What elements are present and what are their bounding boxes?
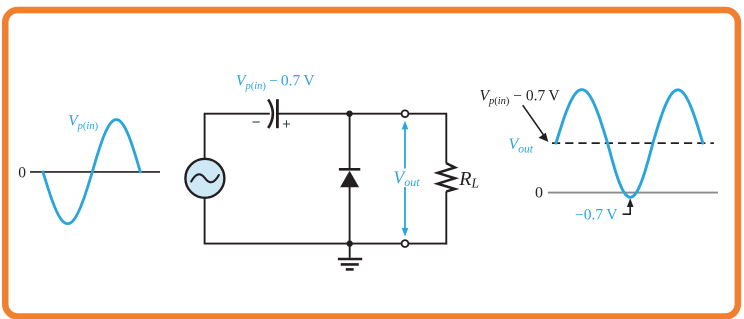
junction bottom <box>347 240 353 246</box>
terminal bottom <box>402 240 409 247</box>
ac source VS <box>185 159 224 198</box>
terminal top <box>402 110 409 117</box>
wire top right <box>277 113 446 115</box>
wire top left <box>204 113 270 115</box>
wire bottom <box>204 243 447 245</box>
output waveform Vout <box>556 90 703 198</box>
arrow to dashed level <box>523 105 549 142</box>
svg-text:+: + <box>282 117 290 133</box>
diode D anode triangle <box>340 171 359 188</box>
output zero axis <box>548 192 718 194</box>
svg-text:−0.7 V: −0.7 V <box>575 206 618 223</box>
wire diode branch upper <box>349 114 351 169</box>
elbow arrow to -0.7V <box>623 198 634 214</box>
wire right branch lower <box>445 191 447 244</box>
label Vout circuit <box>393 167 421 188</box>
svg-text:−: − <box>252 114 261 131</box>
diode D cathode bar <box>339 168 360 171</box>
Vout arrow <box>402 121 409 237</box>
junction top <box>346 111 352 117</box>
capacitor C curved plate <box>268 99 273 128</box>
svg-text:0: 0 <box>18 165 26 182</box>
input axis <box>30 171 160 173</box>
dashed line Vout level <box>552 142 714 144</box>
svg-text:0: 0 <box>535 185 543 202</box>
resistor RL <box>438 163 455 191</box>
wire right branch upper <box>445 113 447 164</box>
wire diode branch lower <box>349 187 351 244</box>
input waveform Vin <box>43 120 140 224</box>
wire left vertical <box>204 114 206 160</box>
capacitor C straight plate <box>276 99 279 128</box>
ground <box>338 244 362 270</box>
